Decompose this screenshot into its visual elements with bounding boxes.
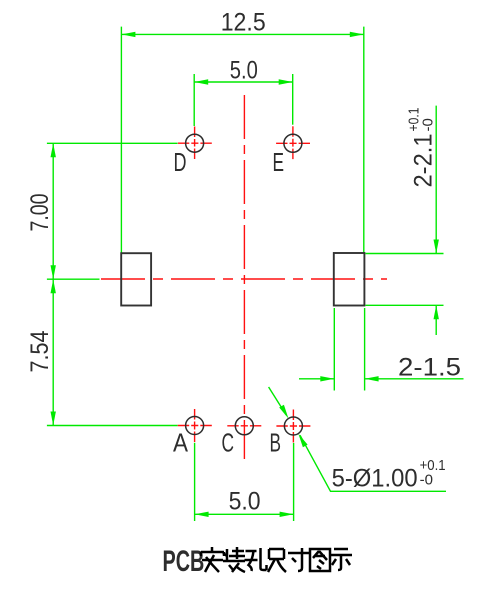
svg-text:7.54: 7.54 xyxy=(26,330,54,372)
svg-text:D: D xyxy=(174,147,187,177)
dimension 7.00 / 7.54 (left vertical chain) xyxy=(47,143,178,425)
svg-text:E: E xyxy=(273,147,285,177)
svg-text:PCB: PCB xyxy=(163,545,205,578)
hole D xyxy=(186,134,204,152)
hole A xyxy=(186,417,204,435)
svg-text:7.00: 7.00 xyxy=(26,194,54,232)
pad left (black rectangle) xyxy=(121,253,151,305)
svg-text:12.5: 12.5 xyxy=(221,9,266,37)
center mark hole A xyxy=(178,409,212,442)
svg-text:5.0: 5.0 xyxy=(229,488,261,516)
caption CJK strokes: 示 xyxy=(330,549,352,570)
dimension text 7.00 (rotated) xyxy=(26,194,54,232)
svg-text:-0: -0 xyxy=(420,118,437,131)
center mark hole E xyxy=(276,126,310,159)
pad right (black rectangle) xyxy=(334,253,365,306)
hole C xyxy=(235,417,253,435)
caption CJK strokes: 安 xyxy=(201,547,224,572)
svg-text:2-2.1: 2-2.1 xyxy=(410,134,438,188)
dimension text 7.54 (rotated) xyxy=(26,330,54,372)
caption CJK strokes: 寸 xyxy=(288,548,309,571)
svg-text:C: C xyxy=(222,428,235,458)
leader 5-diameter note to hole B xyxy=(269,387,446,491)
center mark hole D xyxy=(178,127,212,160)
dimension 12.5 xyxy=(121,27,363,253)
dimension 2-1.5 (below right pad) xyxy=(299,308,464,391)
svg-text:5.0: 5.0 xyxy=(230,57,258,85)
caption CJK strokes: 尺 xyxy=(268,549,286,572)
svg-text:B: B xyxy=(270,428,282,458)
caption CJK strokes: 图 xyxy=(310,549,330,571)
dimension 2-2.1 +0.1/-0 (right of top pad) xyxy=(366,106,444,335)
centerline horizontal through pads (red dash-dot) xyxy=(101,278,387,280)
centerline vertical (main red dash-dot) xyxy=(243,95,245,459)
svg-text:-0: -0 xyxy=(420,472,433,489)
dimension 5.0 top xyxy=(194,74,293,126)
dimension text 2-2.1 (rotated) with tolerance +0.1/-0 xyxy=(406,108,438,188)
svg-text:2-1.5: 2-1.5 xyxy=(398,354,461,382)
svg-text:5-Ø1.00: 5-Ø1.00 xyxy=(332,465,418,493)
center mark hole C xyxy=(227,425,261,427)
center mark hole B xyxy=(276,410,310,443)
caption CJK strokes: 装 xyxy=(223,547,245,572)
dimension 5.0 bottom xyxy=(195,443,294,521)
svg-text:A: A xyxy=(173,428,189,458)
hole E xyxy=(284,134,302,152)
hole B xyxy=(284,417,302,435)
caption CJK strokes: 孔 xyxy=(245,548,267,571)
caption PCB mounting-hole figure title xyxy=(163,545,205,578)
